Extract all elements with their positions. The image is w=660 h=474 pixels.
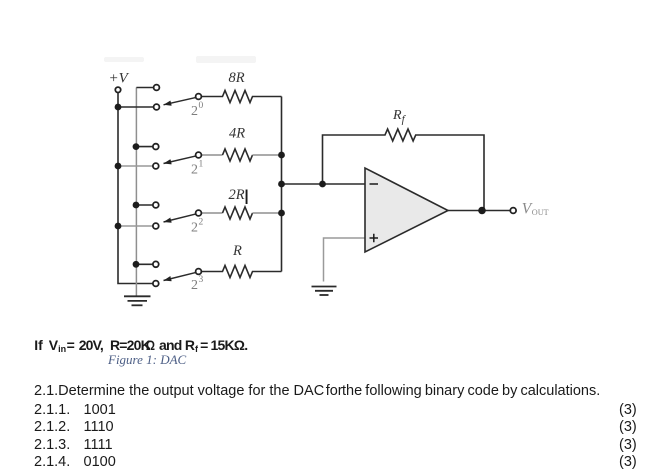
svg-text:23: 23	[191, 275, 204, 293]
svg-text:4R: 4R	[229, 126, 245, 142]
svg-text:OUT: OUT	[532, 208, 549, 217]
svg-text:R: R	[232, 243, 242, 259]
svg-text:21: 21	[191, 160, 204, 178]
svg-text:Rf: Rf	[392, 108, 407, 126]
svg-text:+V: +V	[109, 71, 130, 87]
svg-text:22: 22	[191, 218, 204, 236]
svg-text:20: 20	[191, 101, 204, 119]
svg-text:8R: 8R	[229, 70, 245, 86]
svg-text:2R: 2R	[229, 187, 245, 203]
